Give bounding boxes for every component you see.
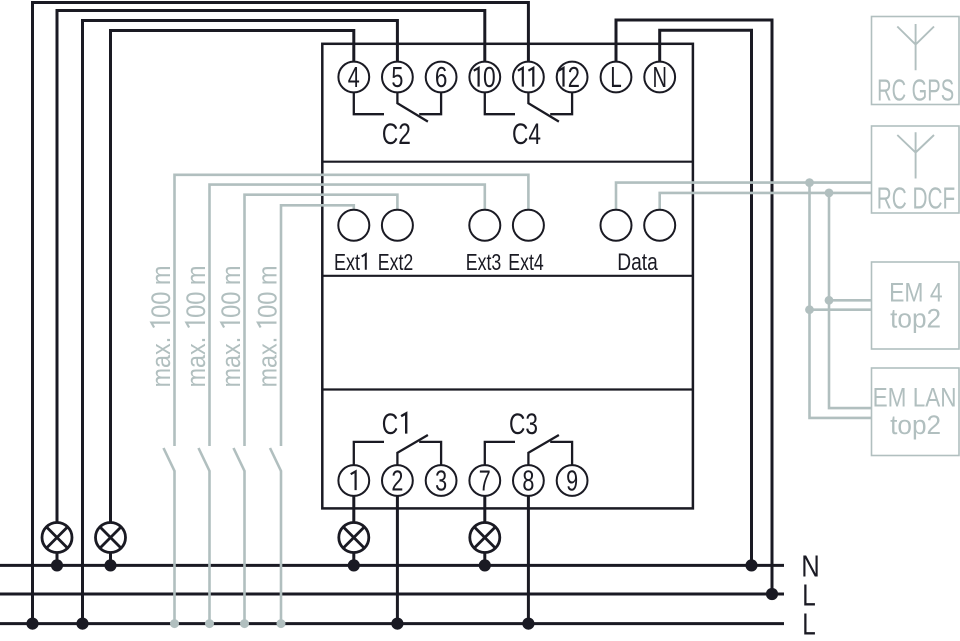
- terminal 12: [557, 62, 588, 93]
- svg-text:Data: Data: [617, 249, 658, 276]
- bus N (top supply line): [0, 564, 784, 567]
- svg-text:max.: max.: [216, 337, 246, 388]
- terminal 6: [426, 62, 457, 93]
- svg-text:8: 8: [522, 465, 534, 497]
- label terminal 12: [559, 62, 580, 94]
- gray switch blade input 1: [164, 448, 175, 471]
- gray wire: input 4 lower drop to L bus: [280, 471, 283, 624]
- gray switch blade input 2: [199, 448, 210, 471]
- wire: top hook from terminal 11 down left side to L bus: [33, 3, 529, 624]
- wire: top hook from terminal 10 down to lamp E1: [57, 11, 485, 523]
- svg-text:C: C: [382, 408, 399, 441]
- relay C1 contact of terminal 3: [419, 442, 441, 465]
- wire: terminal 2 down to L bus: [396, 496, 399, 624]
- terminal Ext1: [338, 210, 369, 241]
- gray junction: branch 2 at EM 4 stub: [825, 296, 834, 305]
- wire: top hook from terminal 4 down to lamp E2: [111, 31, 354, 523]
- gray junction: input 4 on L bus: [277, 619, 286, 628]
- terminal N: [644, 62, 675, 93]
- svg-text:N: N: [652, 62, 667, 94]
- junction: lamp E1 on N bus: [51, 559, 63, 571]
- svg-text:00 m: 00 m: [253, 265, 283, 318]
- gray wire: external input 1 to Ext4: [175, 175, 529, 446]
- relay C2 contact of terminal 4: [354, 92, 384, 114]
- terminal L: [601, 62, 632, 93]
- svg-text:max.: max.: [146, 337, 176, 388]
- wire: terminal L up over right side down to L bus: [616, 20, 772, 594]
- terminal 4: [338, 62, 369, 93]
- relay C3 contact of terminal 9: [550, 442, 572, 465]
- gray switch blade input 3: [234, 448, 245, 471]
- lamp E4: [470, 523, 500, 553]
- svg-text:3: 3: [435, 465, 447, 497]
- label max. 100 m input 4: [253, 265, 283, 387]
- gray junction: data branch 1 at RC DCF line: [805, 178, 814, 187]
- svg-text:7: 7: [479, 465, 491, 497]
- svg-text:4: 4: [348, 62, 360, 94]
- wire: lamp E4 to N bus: [483, 553, 486, 566]
- terminal Data B: [644, 210, 675, 241]
- gray wire: branch 1 stub into EM 4 top2: [810, 308, 872, 311]
- svg-text:max.: max.: [181, 337, 211, 388]
- label max. 100 m input 3: [216, 265, 246, 387]
- RC GPS receiver box: [872, 17, 960, 105]
- relay C2 contact of terminal 6: [419, 92, 441, 114]
- gray junction: input 3 on L bus: [240, 619, 249, 628]
- lamp E2: [96, 523, 126, 553]
- gray wire: Data terminal 1 to RC DCF: [616, 183, 872, 210]
- svg-text:max.: max.: [253, 337, 283, 388]
- antenna symbol RC DCF: [897, 132, 934, 178]
- bus L (middle supply line): [0, 593, 784, 596]
- svg-text:top2: top2: [890, 410, 941, 440]
- junction: lamp E4 on N bus: [479, 559, 491, 571]
- gray wire: external input 2 to Ext3: [210, 185, 485, 446]
- gray junction: input 1 on L bus: [170, 619, 179, 628]
- lamp E1: [42, 523, 72, 553]
- wire: lamp E2 to N bus: [109, 553, 112, 566]
- gray switch blade input 4: [270, 448, 281, 471]
- device divider line 1: [322, 161, 693, 163]
- svg-text:2: 2: [568, 62, 580, 94]
- junction: terminal N wire on N bus: [745, 559, 757, 571]
- svg-text:2: 2: [391, 465, 403, 497]
- terminal 8: [513, 465, 544, 496]
- gray wire: input 2 lower drop to L bus: [208, 471, 211, 624]
- label terminal 10: [474, 62, 496, 94]
- terminal Data A: [601, 210, 632, 241]
- wire: terminal 7 down to lamp E4: [483, 496, 486, 523]
- svg-text:C3: C3: [509, 408, 538, 441]
- relay C1 blade from terminal 2: [397, 435, 428, 465]
- gray wire: input 3 lower drop to L bus: [243, 471, 246, 624]
- svg-text:6: 6: [435, 62, 448, 94]
- wire: terminal 1 down to lamp E3: [352, 496, 355, 523]
- terminal Ext4: [513, 210, 544, 241]
- label max. 100 m input 2: [181, 265, 211, 387]
- gray wire: external input 3 to Ext2: [245, 195, 398, 446]
- relay C2 blade from terminal 5: [397, 92, 428, 121]
- device outline box: [322, 44, 693, 509]
- terminal 7: [469, 465, 500, 496]
- antenna symbol RC GPS: [897, 24, 934, 70]
- svg-text:Ext: Ext: [334, 249, 360, 275]
- gray wire: data branch 1 down to EM LAN top2: [810, 183, 872, 418]
- gray wire: external input 4 to Ext1: [281, 205, 354, 446]
- junction: lamp E2 on N bus: [104, 559, 116, 571]
- gray wire: data branch 2 down to EM LAN top2: [829, 193, 872, 408]
- terminal 2: [382, 465, 413, 496]
- svg-text:C2: C2: [382, 118, 411, 151]
- gray wire: Data terminal 2 to RC DCF: [660, 193, 872, 210]
- RC DCF receiver box: [872, 126, 960, 213]
- label Ext1: [334, 249, 366, 275]
- terminal 1: [338, 465, 369, 496]
- device divider line 3: [322, 388, 693, 390]
- terminal Ext2: [382, 210, 413, 241]
- svg-text:C4: C4: [512, 118, 541, 151]
- relay C4 contact of terminal 10: [485, 92, 515, 114]
- gray wire: branch 2 stub into EM 4 top2: [829, 299, 872, 302]
- label relay C1: [382, 408, 406, 441]
- device divider line 2: [322, 275, 693, 277]
- relay C3 blade from terminal 8: [528, 435, 559, 465]
- svg-text:00 m: 00 m: [146, 265, 176, 318]
- terminal Ext3: [469, 210, 500, 241]
- junction: terminal 11 wire on L bus: [26, 618, 38, 630]
- svg-text:Ext3: Ext3: [466, 249, 502, 275]
- svg-text:9: 9: [566, 465, 578, 497]
- junction: terminal 2 wire on L bus: [391, 618, 403, 630]
- svg-text:RC GPS: RC GPS: [877, 72, 954, 107]
- wire: lamp E1 to N bus: [56, 553, 59, 566]
- label terminal 1: [351, 471, 356, 490]
- junction: terminal 5 wire on L bus: [76, 618, 88, 630]
- svg-text:00 m: 00 m: [181, 265, 211, 318]
- svg-text:L: L: [610, 62, 622, 94]
- relay C4 contact of terminal 12: [550, 92, 572, 114]
- terminal 5: [382, 62, 413, 93]
- svg-text:L: L: [802, 607, 816, 641]
- junction: lamp E3 on N bus: [348, 559, 360, 571]
- gray junction: branch 1 at EM 4 stub: [805, 305, 814, 314]
- wire: terminal 8 down to L bus: [527, 496, 530, 624]
- relay C4 blade from terminal 11: [528, 92, 559, 121]
- junction: terminal 8 wire on L bus: [522, 618, 534, 630]
- relay C1 contact of terminal 1: [354, 442, 384, 465]
- terminal 3: [426, 465, 457, 496]
- svg-text:5: 5: [391, 62, 403, 94]
- svg-text:00 m: 00 m: [216, 265, 246, 318]
- gray junction: input 2 on L bus: [205, 619, 214, 628]
- bus L (bottom supply line): [0, 622, 784, 625]
- gray junction: data branch 2 at RC DCF line: [825, 189, 834, 198]
- EM 4 top2 module box: [872, 262, 960, 349]
- gray wire: input 1 lower drop to L bus: [173, 471, 176, 624]
- relay C3 contact of terminal 7: [485, 442, 515, 465]
- terminal 10: [469, 62, 500, 93]
- wire: lamp E3 to N bus: [352, 553, 355, 566]
- EM LAN top2 module box: [872, 368, 960, 456]
- svg-text:top2: top2: [890, 304, 941, 334]
- svg-text:RC DCF: RC DCF: [877, 181, 956, 216]
- terminal 9: [557, 465, 588, 496]
- label terminal 11: [518, 68, 533, 87]
- svg-text:Ext2: Ext2: [378, 249, 414, 275]
- svg-text:Ext4: Ext4: [508, 249, 544, 275]
- wire: terminal N up over right side down to N bus: [660, 30, 752, 565]
- lamp E3: [339, 523, 369, 553]
- label max. 100 m input 1: [146, 265, 176, 387]
- svg-text:EM LAN: EM LAN: [873, 383, 957, 413]
- junction: terminal L wire on L bus: [766, 588, 778, 600]
- terminal 11: [513, 62, 544, 93]
- wire: top hook from terminal 5 down left side to L bus: [83, 21, 398, 624]
- svg-text:0: 0: [483, 62, 496, 94]
